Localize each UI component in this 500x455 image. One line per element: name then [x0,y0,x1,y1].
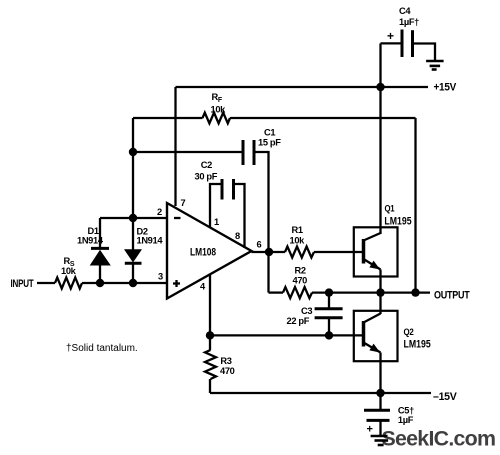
svg-text:+15V: +15V [434,82,458,94]
capacitor C3 22 pF [287,293,343,336]
node D2 top junction [129,214,137,222]
svg-text:LM195: LM195 [404,338,431,350]
capacitor C2 30 pF [195,160,234,200]
wire -15V rail [210,392,431,394]
svg-text:1: 1 [214,217,219,227]
node feedback tap [411,288,419,296]
svg-text:6: 6 [257,240,262,250]
wire Q2 emitter to -15V [379,353,381,394]
svg-text:C3: C3 [301,306,312,316]
wire pin 2 input line [100,217,167,219]
ground (C4) [426,61,444,70]
svg-text:10k: 10k [211,105,227,115]
svg-text:LM108: LM108 [190,246,216,258]
svg-text:15 pF: 15 pF [258,138,281,148]
svg-text:7: 7 [181,198,186,208]
svg-text:3: 3 [158,271,163,281]
resistor R1 10k [285,225,364,258]
resistor R3 470 [205,335,235,393]
wire C2 to pin 8 [234,184,245,248]
node C3 bottom [325,331,333,339]
svg-text:22 pF: 22 pF [287,316,310,326]
node C1 branch [129,148,137,156]
svg-text:10k: 10k [290,236,306,246]
node D2 bottom [129,279,137,287]
wire pin6 node down to R2 [267,252,269,293]
wire feedback left vertical [132,118,134,218]
svg-text:R2: R2 [295,266,306,276]
wire C2 to pin 1 [210,184,222,228]
node -15V junction [376,389,384,397]
wire +15V rail [176,86,429,88]
svg-text:LM195: LM195 [384,216,411,228]
wire Q2 collector to output node [379,293,381,314]
svg-text:INPUT: INPUT [11,278,35,290]
wire C4 left [381,42,402,44]
svg-text:OUTPUT: OUTPUT [434,290,470,302]
node C3 top [325,288,333,296]
svg-text:2: 2 [157,207,162,217]
op-amp U1 LM108 [167,203,252,299]
svg-text:30 pF: 30 pF [195,171,218,181]
svg-text:–15V: –15V [433,391,458,403]
wire C4 right to ground [413,44,436,61]
node +15V junction [376,83,384,91]
resistor RF 10k [133,92,416,123]
svg-text:Q1: Q1 [385,204,395,214]
svg-text:1N914: 1N914 [137,236,164,246]
wire op-amp pin 4 [209,274,211,335]
wire pin 4 to Q2 base [210,334,364,336]
node pin 6 [265,248,273,256]
svg-text:1N914: 1N914 [77,236,104,246]
svg-text:8: 8 [235,231,240,241]
svg-text:Q2: Q2 [404,327,414,337]
wire Q1 emitter to output [379,270,381,293]
wire feedback right vertical [414,118,416,293]
svg-text:C2: C2 [201,160,212,170]
node output/emitters [376,288,384,296]
svg-text:4: 4 [200,282,206,292]
svg-text:C1: C1 [264,128,275,138]
svg-text:+: + [367,424,373,436]
svg-text:SeekIC.com: SeekIC.com [382,426,496,450]
svg-text:†Solid tantalum.: †Solid tantalum. [66,343,138,354]
svg-text:+: + [387,29,394,43]
diode D2 1N914 [124,218,163,283]
svg-text:1µF: 1µF [398,415,414,425]
svg-text:470: 470 [220,366,235,376]
svg-text:C4: C4 [399,6,411,16]
diode D1 1N914 [77,218,111,283]
svg-text:470: 470 [293,276,308,286]
wire C1 left [133,151,243,153]
node D1 bottom [96,279,104,287]
svg-text:R1: R1 [292,225,303,235]
svg-text:D1: D1 [88,226,99,236]
transistor Q1 LM195 [354,204,412,277]
node pin4/R3 junction [206,331,214,339]
wire Q1 collector from +15V [379,87,381,234]
resistor R2 470 [269,266,431,299]
wire pin 6 output [252,251,286,253]
wire op-amp pin 7 supply [174,87,176,206]
capacitor C1 15 pF [243,128,281,166]
svg-text:R3: R3 [220,356,231,366]
svg-text:1µF†: 1µF† [399,17,419,27]
wire C1 right to pin 6 node [254,152,269,252]
capacitor C5 1uF [364,393,414,436]
resistor Rs 10k [37,256,167,289]
capacitor C4 [387,6,419,57]
svg-text:10k: 10k [61,266,77,276]
wire C4 stem to +15V [379,43,381,88]
ground (C5) [371,436,389,445]
transistor Q2 LM195 [354,311,431,361]
